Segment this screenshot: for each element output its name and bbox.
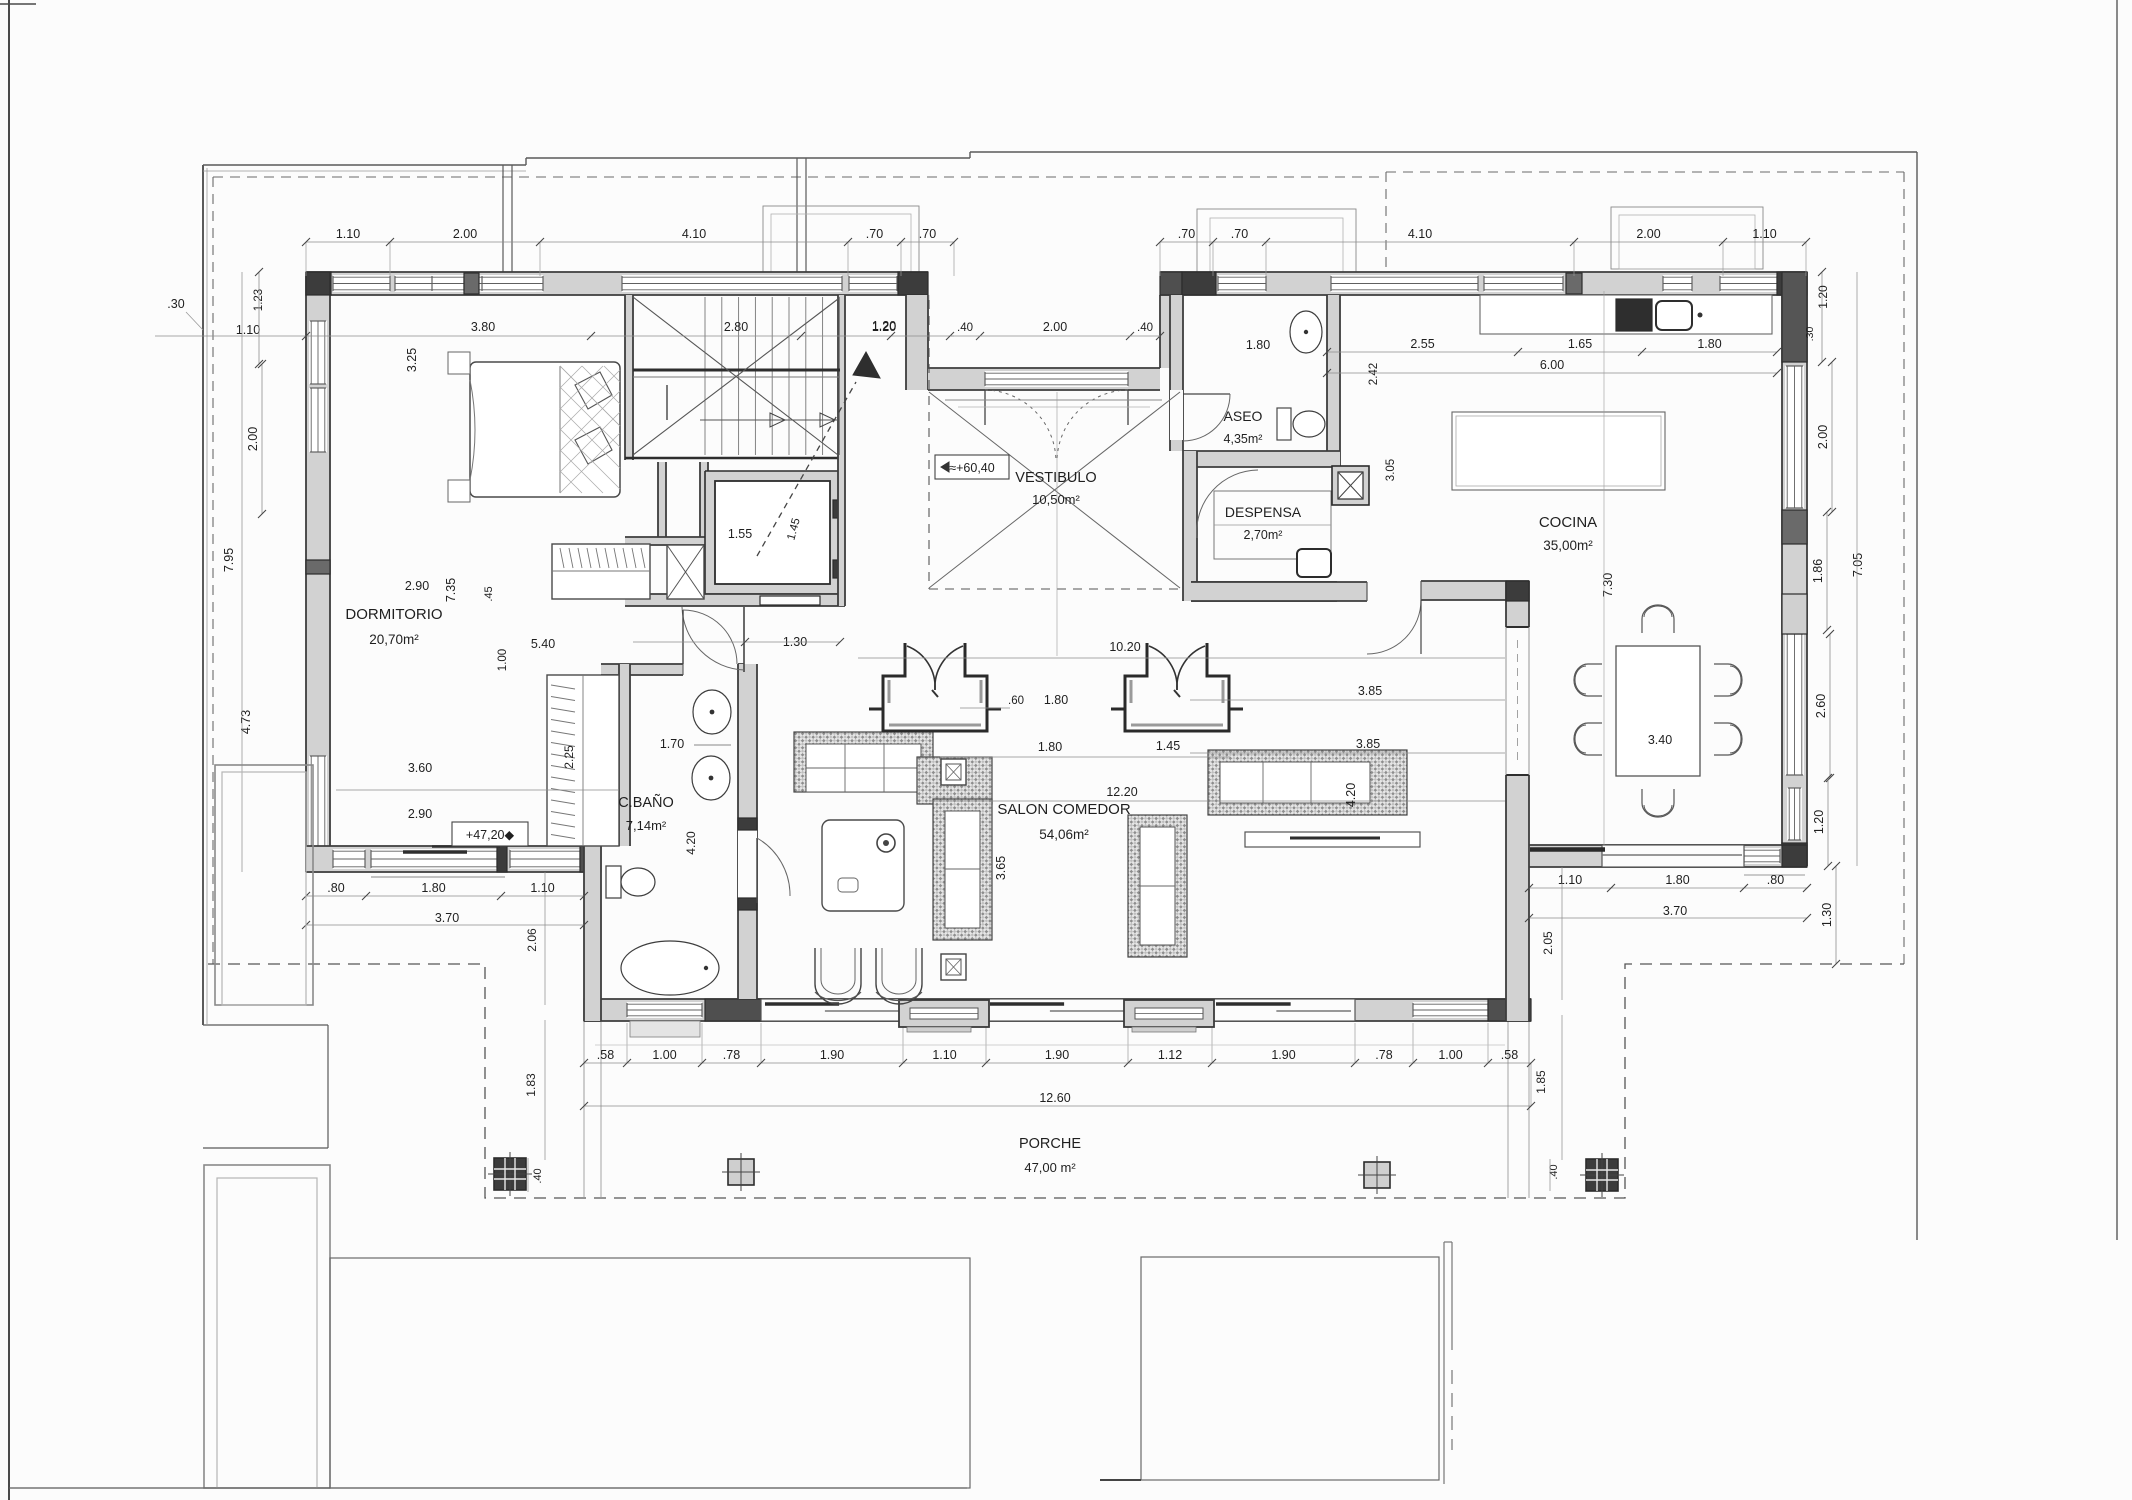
svg-text:1.83: 1.83 — [524, 1073, 538, 1097]
svg-text:1.10: 1.10 — [1558, 873, 1582, 887]
svg-text:1.20: 1.20 — [1816, 285, 1830, 309]
svg-text:.70: .70 — [1178, 227, 1195, 241]
svg-text:1.10: 1.10 — [932, 1048, 956, 1062]
svg-text:7.05: 7.05 — [1851, 553, 1865, 577]
svg-text:C.BAÑO: C.BAÑO — [618, 794, 674, 811]
svg-text:.80: .80 — [1767, 873, 1784, 887]
svg-text:DORMITORIO: DORMITORIO — [345, 606, 442, 623]
svg-text:2.90: 2.90 — [405, 579, 429, 593]
svg-text:1.55: 1.55 — [728, 527, 752, 541]
svg-text:.70: .70 — [919, 227, 936, 241]
svg-text:5.40: 5.40 — [531, 637, 555, 651]
svg-text:2,70m²: 2,70m² — [1244, 528, 1283, 542]
svg-text:ASEO: ASEO — [1224, 408, 1263, 424]
svg-text:1.20: 1.20 — [872, 319, 896, 333]
svg-text:2.42: 2.42 — [1368, 363, 1380, 385]
svg-text:1.80: 1.80 — [1044, 693, 1068, 707]
svg-text:2.55: 2.55 — [1410, 337, 1434, 351]
svg-text:.40: .40 — [957, 322, 973, 334]
svg-text:1.70: 1.70 — [660, 737, 684, 751]
svg-text:4.10: 4.10 — [1408, 227, 1432, 241]
svg-text:4.10: 4.10 — [682, 227, 706, 241]
svg-text:47,00 m²: 47,00 m² — [1024, 1160, 1076, 1175]
svg-text:.60: .60 — [1008, 695, 1024, 707]
svg-text:1.90: 1.90 — [1271, 1048, 1295, 1062]
svg-text:1.10: 1.10 — [336, 227, 360, 241]
svg-text:2.00: 2.00 — [453, 227, 477, 241]
svg-text:1.90: 1.90 — [820, 1048, 844, 1062]
svg-text:2.60: 2.60 — [1814, 694, 1828, 718]
svg-text:.58: .58 — [597, 1048, 614, 1062]
svg-text:3.05: 3.05 — [1385, 459, 1397, 481]
svg-text:4.73: 4.73 — [239, 710, 253, 734]
svg-text:1.00: 1.00 — [1438, 1048, 1462, 1062]
svg-text:.45: .45 — [483, 586, 495, 601]
svg-text:1.20: 1.20 — [1812, 810, 1826, 834]
svg-text:3.80: 3.80 — [471, 320, 495, 334]
svg-text:2.00: 2.00 — [1636, 227, 1660, 241]
svg-text:4,35m²: 4,35m² — [1224, 432, 1263, 446]
svg-text:1.90: 1.90 — [1045, 1048, 1069, 1062]
svg-text:4.20: 4.20 — [684, 831, 698, 855]
svg-text:1.85: 1.85 — [1534, 1070, 1548, 1094]
svg-text:1.80: 1.80 — [421, 881, 445, 895]
svg-text:3.25: 3.25 — [405, 348, 419, 372]
svg-text:SALON COMEDOR: SALON COMEDOR — [997, 801, 1131, 818]
svg-text:20,70m²: 20,70m² — [369, 632, 419, 647]
svg-text:DESPENSA: DESPENSA — [1225, 504, 1302, 520]
svg-text:1.80: 1.80 — [1246, 338, 1270, 352]
svg-text:.70: .70 — [866, 227, 883, 241]
svg-text:1.10: 1.10 — [236, 323, 260, 337]
svg-text:7.30: 7.30 — [1601, 573, 1615, 597]
svg-text:7.35: 7.35 — [444, 578, 458, 602]
svg-text:1.00: 1.00 — [497, 649, 509, 671]
svg-text:3.65: 3.65 — [994, 856, 1008, 880]
svg-text:.30: .30 — [167, 297, 184, 311]
svg-text:.30: .30 — [1804, 327, 1816, 342]
svg-text:1.10: 1.10 — [530, 881, 554, 895]
svg-text:1.30: 1.30 — [1820, 903, 1834, 927]
svg-text:1.00: 1.00 — [652, 1048, 676, 1062]
svg-text:1.10: 1.10 — [1752, 227, 1776, 241]
svg-text:3.40: 3.40 — [1648, 733, 1672, 747]
svg-text:1.12: 1.12 — [1158, 1048, 1182, 1062]
svg-text:.80: .80 — [327, 881, 344, 895]
svg-text:+47,20◆: +47,20◆ — [466, 828, 515, 842]
svg-text:1.45: 1.45 — [1156, 739, 1180, 753]
svg-text:4.20: 4.20 — [1344, 783, 1358, 807]
svg-text:7.95: 7.95 — [222, 548, 236, 572]
svg-text:2.80: 2.80 — [724, 320, 748, 334]
svg-text:1.80: 1.80 — [1697, 337, 1721, 351]
svg-text:.78: .78 — [723, 1048, 740, 1062]
svg-text:12.60: 12.60 — [1039, 1091, 1070, 1105]
svg-text:12.20: 12.20 — [1106, 785, 1137, 799]
svg-text:.40: .40 — [532, 1168, 544, 1183]
svg-text:.70: .70 — [1231, 227, 1248, 241]
svg-text:2.00: 2.00 — [1816, 425, 1830, 449]
svg-text:1.86: 1.86 — [1811, 559, 1825, 583]
svg-text:3.85: 3.85 — [1356, 737, 1380, 751]
svg-text:≈+60,40: ≈+60,40 — [949, 461, 994, 475]
svg-text:.58: .58 — [1501, 1048, 1518, 1062]
svg-text:2.00: 2.00 — [1043, 320, 1067, 334]
svg-text:COCINA: COCINA — [1539, 514, 1597, 531]
svg-text:10.20: 10.20 — [1109, 640, 1140, 654]
svg-text:35,00m²: 35,00m² — [1543, 538, 1593, 553]
svg-text:1.80: 1.80 — [1038, 740, 1062, 754]
svg-text:10,50m²: 10,50m² — [1032, 492, 1080, 507]
svg-text:VESTIBULO: VESTIBULO — [1015, 470, 1096, 486]
svg-text:PORCHE: PORCHE — [1019, 1136, 1081, 1152]
svg-text:2.00: 2.00 — [246, 427, 260, 451]
svg-text:3.70: 3.70 — [1663, 904, 1687, 918]
svg-text:1.65: 1.65 — [1568, 337, 1592, 351]
svg-text:54,06m²: 54,06m² — [1039, 827, 1089, 842]
svg-text:7,14m²: 7,14m² — [626, 818, 667, 833]
svg-text:2.05: 2.05 — [1541, 931, 1555, 955]
svg-text:2.90: 2.90 — [408, 807, 432, 821]
svg-text:.78: .78 — [1375, 1048, 1392, 1062]
svg-text:6.00: 6.00 — [1540, 358, 1564, 372]
svg-text:2.06: 2.06 — [525, 928, 539, 952]
svg-text:2.25: 2.25 — [562, 745, 576, 769]
svg-text:3.60: 3.60 — [408, 761, 432, 775]
svg-text:3.85: 3.85 — [1358, 684, 1382, 698]
svg-text:1.80: 1.80 — [1665, 873, 1689, 887]
svg-text:.40: .40 — [1137, 322, 1153, 334]
svg-text:3.70: 3.70 — [435, 911, 459, 925]
